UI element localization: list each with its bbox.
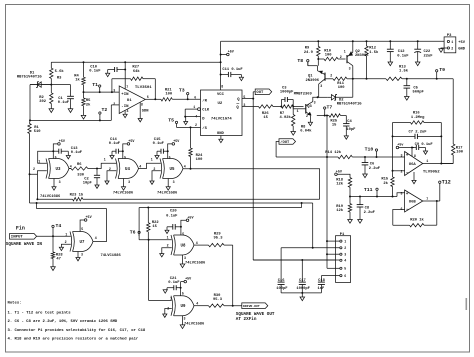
svg-text:/OUT: /OUT: [280, 140, 290, 145]
+5V port R18: [335, 173, 338, 176]
svg-text:U1: U1: [127, 99, 132, 103]
test point T9: [436, 70, 438, 72]
svg-text:5: 5: [182, 291, 184, 295]
svg-text:3: 3: [349, 67, 351, 71]
wire Q1 base R11: [325, 78, 333, 80]
svg-text:2: 2: [195, 123, 197, 127]
svg-text:+5V: +5V: [228, 51, 235, 55]
svg-text:T12: T12: [442, 179, 451, 185]
svg-text:0.1uF: 0.1uF: [168, 281, 180, 285]
svg-text:2. C6 - C8 are 2.2uF, 10%, 50V: 2. C6 - C8 are 2.2uF, 10%, 50V ceramic 1…: [8, 319, 118, 324]
svg-text:3: 3: [314, 100, 316, 104]
svg-text:22uF: 22uF: [424, 55, 434, 59]
svg-text:74LVC1G86: 74LVC1G86: [40, 195, 61, 199]
test point T12: [439, 181, 441, 183]
svg-text:R5: R5: [86, 99, 91, 103]
U6B output: [423, 200, 440, 202]
svg-text:3: 3: [59, 180, 61, 184]
svg-text:2: 2: [65, 240, 67, 244]
wire T6 drop: [138, 208, 140, 240]
wire U6A pin3: [404, 156, 406, 158]
op-amp U6A TLV9052: [405, 152, 423, 176]
svg-text:0.1uF: 0.1uF: [166, 214, 178, 218]
flag /OUT: [279, 139, 296, 145]
svg-text:24.9: 24.9: [304, 51, 314, 55]
ground R5: [81, 115, 86, 119]
svg-text:2k: 2k: [86, 103, 91, 108]
svg-text:T2: T2: [102, 107, 108, 113]
svg-text:4. R18 and R19 are precision r: 4. R18 and R19 are precision resistors o…: [8, 337, 139, 342]
feedback R16: [392, 123, 394, 171]
ground C15: [155, 156, 159, 159]
svg-text:T8: T8: [297, 58, 303, 64]
svg-text:8: 8: [414, 154, 416, 158]
svg-text:1: 1: [297, 109, 299, 113]
capacitor C1: [70, 85, 72, 96]
feedback C7: [393, 135, 416, 137]
ground R19: [348, 220, 353, 224]
ground C20: [165, 230, 169, 233]
connector P3: [444, 37, 456, 53]
svg-text:T3: T3: [179, 88, 185, 94]
frame tick: [465, 298, 467, 310]
+5V port U9: [181, 281, 184, 283]
svg-text:10pF: 10pF: [83, 182, 93, 186]
svg-text:U6A: U6A: [409, 163, 417, 167]
svg-text:R23 15: R23 15: [70, 194, 84, 198]
svg-text:4: 4: [139, 164, 141, 168]
svg-text:12k: 12k: [336, 208, 344, 213]
svg-text:2: 2: [306, 114, 308, 118]
svg-text:GND: GND: [458, 48, 466, 52]
svg-text:5.6k: 5.6k: [55, 69, 65, 74]
U1 pin4 ground: [124, 88, 126, 90]
wire +IN: [84, 91, 120, 93]
wire W2 delay net: [30, 202, 313, 204]
wire P1 pin6: [321, 275, 339, 277]
wire U8 out: [194, 244, 209, 246]
wire U6A pin8: [411, 148, 413, 157]
ground C4: [344, 136, 348, 139]
svg-text:C7 2.2uF: C7 2.2uF: [409, 130, 428, 134]
wire U4 pin2 to ground: [107, 171, 116, 181]
svg-text:U6B: U6B: [409, 201, 417, 205]
svg-text:U7: U7: [80, 241, 85, 245]
wire R6 to U4: [97, 163, 116, 168]
svg-text:0.1uF: 0.1uF: [89, 69, 101, 73]
wire U7 output up: [93, 209, 107, 242]
capacitor C14: [112, 150, 116, 152]
svg-text:7: 7: [426, 197, 428, 201]
wire D1 left down: [29, 85, 31, 121]
ground R2: [49, 109, 54, 113]
capacitor C15: [157, 150, 161, 152]
svg-text:C17: C17: [299, 279, 306, 283]
svg-text:T9: T9: [439, 67, 445, 73]
svg-text:1nF: 1nF: [318, 287, 326, 291]
wire P1 pin4: [253, 259, 340, 261]
svg-text:2: 2: [113, 102, 115, 106]
svg-text:T1: T1: [92, 82, 98, 88]
svg-text:10pF: 10pF: [346, 128, 356, 132]
+5V arrow near U2: [221, 54, 227, 56]
svg-text:0.1uF: 0.1uF: [109, 142, 121, 146]
wire Q1 collector to D2: [318, 96, 328, 98]
svg-text:MMBT2369: MMBT2369: [294, 93, 313, 97]
svg-text:R27: R27: [132, 66, 139, 70]
wire W3 U7 out net: [37, 203, 107, 209]
U2 GND stub: [220, 136, 222, 140]
wire U3 pin1 from +5V: [38, 151, 54, 163]
XOR gate U7 74LVC1G86: [70, 232, 72, 252]
svg-text:T5: T5: [168, 118, 174, 124]
svg-text:TLV9052: TLV9052: [423, 170, 440, 174]
svg-text:1: 1: [451, 40, 453, 44]
wire U6A pin2: [393, 170, 405, 172]
op-amp U6B: [405, 190, 423, 212]
svg-text:R14 12k: R14 12k: [325, 150, 342, 155]
+5V port U8: [181, 220, 186, 227]
svg-text:74LVC1G86: 74LVC1G86: [184, 323, 205, 327]
svg-text:4: 4: [196, 302, 198, 306]
svg-text:4: 4: [344, 259, 346, 263]
wire U9 pin2 ground: [165, 309, 172, 315]
wire Q3 collector to P1 bus: [316, 115, 318, 117]
svg-text:3: 3: [173, 180, 175, 184]
U5 pin3 ground: [167, 179, 169, 187]
svg-text:CLK: CLK: [202, 109, 210, 113]
svg-text:U2: U2: [218, 102, 223, 106]
capacitor C9: [412, 147, 416, 149]
svg-text:1: 1: [104, 158, 106, 162]
svg-text:2: 2: [167, 244, 169, 248]
svg-text:15: 15: [332, 123, 337, 127]
svg-text:4: 4: [196, 241, 198, 245]
svg-text:1.5k: 1.5k: [369, 50, 379, 55]
svg-text:C20: C20: [170, 210, 178, 214]
svg-text:+5V: +5V: [336, 170, 343, 174]
svg-text:5: 5: [344, 267, 346, 271]
ground C10: [106, 73, 110, 76]
svg-text:0.1uF: 0.1uF: [58, 101, 70, 105]
wire U2 CLK/D tie: [185, 108, 197, 110]
resistor R19: [349, 197, 351, 204]
capacitor C5: [406, 79, 408, 86]
wire /Q R26: [242, 106, 259, 108]
svg-text:560pF: 560pF: [413, 91, 425, 95]
U8 pin3 ground: [182, 255, 184, 264]
svg-text:Fin: Fin: [16, 226, 25, 232]
svg-text:1000pF: 1000pF: [296, 287, 310, 291]
wire U4 out to U5: [139, 163, 161, 168]
wire P1 pin1: [327, 240, 340, 242]
svg-text:RB751V40T1G: RB751V40T1G: [17, 76, 43, 80]
svg-text:2: 2: [340, 55, 342, 59]
resistor R1: [28, 124, 31, 134]
svg-text:/R: /R: [202, 98, 207, 103]
resistor R10: [318, 58, 324, 60]
test point T3: [187, 98, 189, 100]
svg-text:100: 100: [165, 93, 173, 97]
svg-text:R6: R6: [77, 163, 82, 167]
svg-text:1: 1: [151, 158, 153, 162]
svg-text:100: 100: [325, 54, 333, 58]
svg-text:R16: R16: [413, 112, 421, 116]
wire U4 VCC: [122, 150, 124, 152]
svg-text:5: 5: [81, 227, 83, 231]
wire P1 bus vertical: [326, 116, 328, 269]
wire U9 VCC: [180, 282, 182, 296]
wire R17 chain: [452, 79, 454, 144]
svg-text:C11 0.1uF: C11 0.1uF: [222, 68, 243, 72]
resistor R18: [348, 178, 351, 188]
wire U3 out: [69, 168, 71, 170]
capacitor C17: [301, 260, 303, 280]
U7 VCC +5V: [80, 220, 84, 232]
svg-text:INPUT: INPUT: [11, 236, 24, 240]
svg-text:4.02k: 4.02k: [280, 115, 292, 120]
resistor R5: [83, 92, 85, 98]
svg-text:3: 3: [184, 316, 186, 320]
svg-text:1: 1: [193, 105, 195, 109]
wire cap common: [281, 292, 321, 294]
svg-text:74LVC1G86: 74LVC1G86: [157, 192, 178, 196]
ground C21: [163, 290, 167, 293]
svg-text:/S: /S: [202, 126, 207, 131]
ground C6: [363, 174, 368, 178]
ground C22: [415, 62, 420, 66]
XOR gate U8 74LVC1G86: [171, 235, 173, 255]
wire U1 pin7: [124, 62, 126, 89]
svg-text:+5V: +5V: [185, 278, 192, 282]
ground C12: [388, 62, 393, 66]
wire -IN horizontal: [30, 119, 111, 121]
svg-text:8: 8: [141, 103, 143, 107]
test point T8: [307, 60, 309, 62]
svg-text:−: −: [406, 171, 409, 176]
test point T1: [99, 85, 101, 87]
svg-text:74LVC1G74: 74LVC1G74: [211, 118, 232, 122]
svg-text:100pF: 100pF: [276, 287, 288, 291]
resistor R3: [50, 62, 52, 68]
svg-text:100: 100: [196, 158, 204, 162]
svg-text:2: 2: [401, 169, 403, 173]
svg-text:T10: T10: [365, 147, 374, 153]
svg-text:1000pF: 1000pF: [280, 90, 294, 94]
resistor R7: [281, 105, 293, 108]
U4 pin3 ground: [123, 179, 125, 187]
ground C8: [358, 220, 363, 224]
wire T11 node: [350, 196, 397, 198]
svg-text:SDN: SDN: [142, 109, 149, 113]
svg-text:6: 6: [401, 207, 403, 211]
wire +5V rail oscillator: [51, 61, 220, 63]
+5V port U3: [53, 144, 57, 159]
svg-text:C6: C6: [370, 163, 375, 167]
svg-text:TLV3501: TLV3501: [135, 86, 152, 90]
svg-text:510: 510: [34, 130, 42, 134]
XOR gate U4 74LVC1G86: [116, 159, 118, 179]
test point T5: [175, 121, 177, 123]
svg-text:1: 1: [344, 50, 346, 54]
ground C9: [423, 151, 427, 154]
svg-text:C8: C8: [365, 206, 370, 210]
svg-text:6: 6: [147, 95, 149, 99]
capacitor C18: [320, 276, 322, 281]
svg-text:2.2uF: 2.2uF: [364, 211, 376, 215]
svg-text:7: 7: [126, 85, 128, 89]
capacitor C12: [389, 41, 391, 49]
svg-text:4: 4: [127, 109, 129, 113]
svg-text:3: 3: [81, 252, 83, 256]
ground C2: [95, 185, 99, 188]
U3 pin3 ground: [53, 179, 55, 187]
wire P3 pin2 ground: [441, 47, 447, 50]
wire R7 to Q3 base: [293, 106, 303, 108]
svg-text:12k: 12k: [336, 182, 344, 187]
svg-text:C12: C12: [398, 50, 406, 54]
wire P1 pin2: [281, 247, 340, 249]
svg-text:C9 0.1uF: C9 0.1uF: [415, 143, 434, 147]
svg-text:SQUARE WAVE IN: SQUARE WAVE IN: [6, 242, 43, 247]
wire R29 down: [232, 245, 234, 306]
wire input: [37, 235, 71, 237]
svg-text:4: 4: [70, 164, 72, 168]
svg-text:64k: 64k: [133, 69, 141, 74]
svg-text:2N3906: 2N3906: [355, 54, 369, 58]
ground C5: [405, 97, 410, 101]
svg-text:392: 392: [39, 100, 47, 104]
svg-text:2N3906: 2N3906: [306, 79, 320, 83]
svg-text:1. T1 - T12 are test points: 1. T1 - T12 are test points: [8, 311, 72, 316]
capacitor C2: [96, 168, 98, 170]
test point T2: [99, 112, 101, 114]
resistor R8: [292, 107, 294, 115]
svg-text:2: 2: [451, 47, 453, 51]
+5V port U5: [168, 144, 172, 159]
+5V port C9: [396, 146, 399, 149]
capacitor C20: [180, 227, 182, 235]
wire U2 VCC vertical: [220, 41, 222, 90]
svg-text:1.2Meg: 1.2Meg: [411, 116, 425, 120]
U9 pin3 ground: [182, 316, 184, 325]
svg-text:+5V: +5V: [86, 216, 93, 220]
svg-text:+IN: +IN: [121, 93, 129, 97]
svg-text:P3: P3: [447, 34, 452, 38]
XOR gate U5 74LVC1G86: [160, 159, 162, 179]
resistor R24: [190, 127, 192, 148]
svg-text:0.1uF: 0.1uF: [153, 142, 165, 146]
ground caps: [300, 297, 305, 301]
svg-text:C22: C22: [424, 50, 432, 54]
resistor R30: [209, 304, 225, 307]
U6A pin4 ground: [413, 172, 415, 180]
svg-text:T6: T6: [130, 229, 136, 235]
svg-text:3: 3: [320, 84, 322, 88]
svg-text:U5: U5: [170, 168, 175, 172]
wire collector filter: [353, 78, 386, 80]
flag DRIVR.OUT: [242, 303, 268, 309]
svg-text:1: 1: [167, 236, 169, 240]
flag OUT: [242, 98, 253, 100]
U7 pin3 ground: [77, 252, 79, 258]
svg-text:2.2uF: 2.2uF: [369, 167, 381, 171]
svg-text:1.5k: 1.5k: [399, 69, 409, 74]
svg-text:3: 3: [401, 153, 403, 157]
svg-text:+: +: [406, 154, 409, 159]
wire U5 pin2 to ground: [152, 171, 161, 181]
test point T4: [52, 225, 54, 227]
wire U7 pin2 ground: [61, 244, 70, 247]
svg-text:15: 15: [152, 225, 157, 229]
resistor R17: [452, 144, 455, 155]
wire U3 pin2 from R1 net: [30, 171, 47, 175]
svg-text:+5V: +5V: [128, 140, 135, 144]
svg-text:5: 5: [169, 155, 171, 159]
resistor R2: [50, 85, 52, 93]
wire R9 node: [317, 58, 319, 60]
svg-text:U8: U8: [181, 244, 186, 248]
svg-text:1: 1: [344, 240, 346, 244]
svg-text:T11: T11: [364, 187, 373, 193]
svg-text:6: 6: [344, 274, 346, 278]
wire U6A output: [423, 163, 453, 165]
op-amp U1: [119, 86, 145, 114]
capacitor C3 parallel R7: [280, 106, 282, 108]
svg-text:+5V: +5V: [458, 41, 466, 45]
wire P1 pin3: [327, 253, 340, 255]
svg-text:3: 3: [128, 180, 130, 184]
svg-text:0.1uF: 0.1uF: [71, 151, 83, 155]
svg-text:4: 4: [184, 164, 186, 168]
resistor R22: [147, 208, 149, 223]
wire R25 C4: [317, 115, 329, 117]
svg-text:0.1uF: 0.1uF: [397, 55, 409, 59]
resistor R11: [333, 77, 347, 80]
svg-text:+5V: +5V: [59, 140, 66, 144]
ground R28: [51, 267, 56, 271]
resistor R28: [52, 236, 54, 252]
XOR gate U3 74LVC1G86: [46, 159, 48, 179]
capacitor C4: [345, 116, 347, 124]
svg-text:15: 15: [263, 116, 268, 120]
svg-text:100: 100: [338, 86, 346, 90]
IC U2 74LVC1G74: [201, 90, 243, 136]
svg-text:C4: C4: [347, 120, 352, 124]
ground R8: [291, 132, 296, 136]
capacitor C13: [53, 150, 59, 152]
resistor R6: [69, 168, 71, 170]
resistor R27 feedback: [111, 79, 113, 92]
svg-text:47: 47: [56, 258, 61, 262]
test point T10: [375, 149, 377, 151]
wire U8 pin1: [139, 239, 172, 241]
svg-text:8: 8: [221, 85, 223, 89]
capacitor C21: [167, 287, 174, 289]
resistor R26: [259, 105, 274, 108]
node A wire: [30, 84, 71, 86]
svg-text:6: 6: [194, 96, 196, 100]
wire U3 VCC: [52, 150, 54, 152]
test point T7: [324, 107, 326, 109]
svg-text:C18: C18: [318, 279, 326, 283]
svg-text:3: 3: [184, 256, 186, 260]
svg-text:6.04k: 6.04k: [300, 129, 312, 134]
resistor R4: [83, 62, 85, 77]
svg-text:R20 1k: R20 1k: [410, 217, 424, 222]
test point T6: [138, 231, 140, 233]
ground C1: [68, 109, 73, 113]
